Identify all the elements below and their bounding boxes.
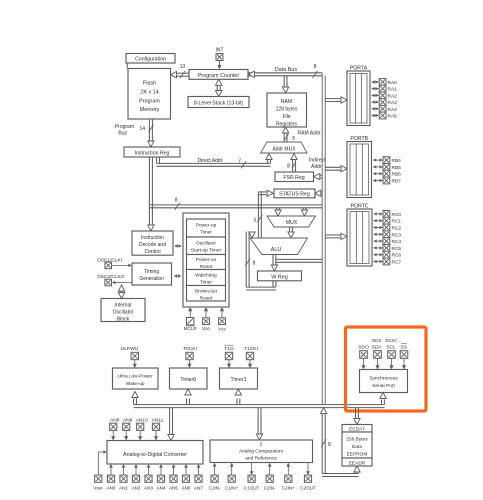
svg-text:Addr MUX: Addr MUX (272, 147, 296, 153)
bus Instruction Reg to Instruction Decode (148, 157, 154, 231)
block Internal Oscillator Block (101, 299, 145, 323)
svg-text:RA4: RA4 (388, 107, 398, 113)
svg-text:Timing: Timing (144, 269, 159, 275)
svg-text:Serial Port: Serial Port (372, 383, 395, 389)
svg-text:C2OUT: C2OUT (300, 486, 316, 491)
block Timer0 (170, 368, 208, 389)
block Oscillator Start-up Timer (187, 237, 226, 255)
svg-text:RC6: RC6 (392, 253, 402, 259)
bus Timing Generation to Internal Oscillator (118, 285, 124, 299)
svg-text:Generation: Generation (139, 276, 164, 282)
svg-text:256 Bytes: 256 Bytes (346, 437, 368, 443)
svg-text:8: 8 (314, 64, 317, 70)
svg-text:File: File (282, 114, 290, 120)
label SDO SDA SCL SS (358, 344, 408, 351)
svg-text:T1G: T1G (224, 346, 234, 352)
svg-text:8: 8 (328, 442, 331, 448)
svg-text:8: 8 (175, 197, 178, 203)
svg-text:3: 3 (253, 218, 256, 224)
wire Timing Generation to reset block (174, 274, 182, 278)
pin AN1 (119, 464, 128, 491)
pin SCL (388, 351, 396, 370)
svg-text:Power-on: Power-on (196, 257, 217, 263)
svg-text:8: 8 (287, 164, 290, 170)
svg-text:Indirect: Indirect (309, 158, 326, 164)
svg-text:C1OUT: C1OUT (244, 486, 260, 491)
svg-text:Analog-to-Digital Converter: Analog-to-Digital Converter (123, 452, 187, 458)
pin RC0 (374, 211, 402, 218)
pin SDA (374, 351, 382, 370)
block Instruction Reg (124, 147, 180, 157)
pin ULPWU (121, 346, 139, 360)
pin RC1 (374, 217, 402, 224)
pin AN5 (169, 464, 178, 491)
svg-text:and Reference: and Reference (245, 456, 277, 462)
pin C2IN- (264, 463, 276, 491)
pin C1IN- (209, 463, 221, 491)
svg-text:Instruction Reg: Instruction Reg (135, 150, 170, 156)
pin RA0 (372, 79, 398, 86)
svg-text:Bus: Bus (118, 130, 127, 136)
pin AN9 (123, 417, 133, 440)
pin AN10 (136, 417, 148, 440)
svg-text:MCLR: MCLR (184, 326, 198, 331)
svg-text:AN0: AN0 (107, 486, 116, 491)
svg-text:Addr: Addr (311, 164, 322, 170)
pin RC4 (374, 238, 402, 245)
svg-text:SCL: SCL (386, 344, 396, 350)
svg-text:SS: SS (401, 344, 408, 350)
block FSR Reg (275, 172, 314, 182)
bus Program Bus 14 (115, 119, 154, 147)
block Watchdog Timer (187, 270, 226, 286)
svg-text:ULPWU: ULPWU (121, 346, 139, 352)
svg-text:RAM: RAM (281, 99, 292, 105)
block Analog Comparators and Reference (210, 440, 313, 463)
svg-text:14: 14 (139, 126, 145, 132)
svg-text:Memory: Memory (140, 107, 160, 113)
pin OSC2/CLKO (97, 274, 125, 286)
wire Data Bus to RAM (282, 76, 288, 93)
svg-text:Program: Program (115, 124, 134, 130)
svg-text:RB5: RB5 (392, 165, 402, 171)
pin VSS (218, 307, 226, 332)
pin T1G (224, 345, 234, 359)
svg-text:Analog Comparators: Analog Comparators (239, 449, 284, 455)
block Analog-to-Digital Converter (107, 441, 203, 465)
pin RB4 (373, 157, 401, 164)
mux MUX (267, 216, 316, 227)
svg-text:ALU: ALU (271, 247, 282, 253)
wire ULPWU pin to block (133, 360, 137, 368)
svg-text:Timer: Timer (200, 280, 212, 286)
svg-text:8-Level Stack (13-bit): 8-Level Stack (13-bit) (194, 101, 244, 107)
svg-text:2K x 14: 2K x 14 (140, 90, 158, 96)
bus to PORTA (325, 97, 347, 103)
pin AN0 (107, 464, 116, 491)
wire Configuration to Flash (126, 63, 128, 69)
block Instruction Decode and Control (132, 231, 173, 255)
label Indirect Addr (309, 158, 326, 171)
alu ALU (250, 238, 308, 255)
block EEADR (342, 458, 372, 466)
wire OSC2 from Timing Generation (112, 281, 132, 285)
svg-text:AN4: AN4 (157, 486, 166, 491)
svg-text:Ultra Low-Power: Ultra Low-Power (118, 373, 153, 378)
bus Program Counter to Stack double arrow (216, 79, 222, 96)
wire W Reg feedback to ALU 8 (245, 232, 276, 291)
svg-text:RA1: RA1 (388, 87, 398, 93)
pin AN7 (194, 464, 203, 491)
svg-text:C2IN+: C2IN+ (282, 486, 295, 491)
svg-text:MUX: MUX (286, 220, 298, 226)
pin VDD (202, 307, 211, 331)
block STATUS Reg (274, 189, 315, 198)
svg-text:Wake-up: Wake-up (126, 381, 145, 386)
port PORTA (347, 66, 370, 126)
svg-text:RC7: RC7 (392, 260, 402, 266)
svg-text:AN2: AN2 (132, 486, 141, 491)
pin T0CKI (183, 346, 197, 360)
pin AN2 (132, 464, 141, 491)
svg-text:EEPROM: EEPROM (347, 452, 368, 458)
pin RB5 (373, 164, 401, 171)
bus EEPROM loop 8 (321, 408, 361, 477)
pin C2OUT (300, 463, 316, 491)
bus 13 Program Counter to Flash (171, 64, 190, 78)
svg-text:RA3: RA3 (388, 100, 398, 106)
svg-text:9: 9 (292, 136, 295, 142)
bus Data Bus (248, 64, 322, 78)
svg-text:AN11: AN11 (152, 417, 164, 423)
pin SS (400, 351, 408, 370)
block Power-on Reset (187, 255, 226, 271)
svg-text:VDD: VDD (202, 326, 211, 331)
svg-text:AN3: AN3 (144, 486, 153, 491)
svg-text:SDO: SDO (358, 344, 369, 350)
svg-text:Brown-out: Brown-out (195, 289, 218, 295)
svg-text:Block: Block (117, 317, 130, 323)
bus RAM Addr 9 (282, 127, 320, 142)
bus main right vertical (322, 73, 325, 405)
wire T0CKI to Timer0 (187, 360, 191, 368)
wire FSR to Addr MUX 8 (287, 154, 297, 173)
bus peripheral bottom (134, 405, 385, 408)
pin RA5 (372, 112, 398, 119)
svg-text:RA5: RA5 (388, 114, 398, 120)
svg-text:PORTB: PORTB (350, 136, 368, 142)
block Synchronous Serial Port (360, 370, 408, 393)
svg-text:Timer0: Timer0 (180, 377, 196, 383)
svg-text:Oscillator: Oscillator (196, 241, 216, 247)
svg-text:T1CKI: T1CKI (244, 346, 258, 352)
wire bus tap to MUX right (301, 208, 307, 216)
block Timing Generation (132, 263, 172, 285)
pin RA3 (372, 99, 398, 106)
svg-text:128 bytes: 128 bytes (276, 107, 298, 113)
port PORTB (347, 136, 372, 198)
svg-text:W Reg: W Reg (271, 274, 287, 280)
svg-text:Registers: Registers (276, 122, 298, 128)
pin RB6 (373, 170, 401, 177)
bus down to ADC (168, 408, 174, 441)
svg-text:Flash: Flash (143, 81, 156, 87)
port PORTC (347, 203, 372, 266)
wire 8-line tap to MUX left (275, 208, 281, 216)
wire VREF loop to ADC (98, 450, 107, 475)
svg-text:STATUS Reg: STATUS Reg (279, 192, 310, 198)
svg-text:RB4: RB4 (392, 158, 402, 164)
wire ALU output to W Reg and bus (271, 255, 322, 272)
block RAM 128 bytes File Registers (267, 93, 307, 128)
block 256 Bytes Data EEPROM (342, 432, 372, 458)
svg-text:AN9: AN9 (123, 417, 133, 423)
svg-text:RC2: RC2 (392, 226, 402, 232)
wire Instruction Decode to reset block (174, 244, 182, 248)
wire MUX to ALU (288, 227, 294, 238)
svg-text:Internal: Internal (115, 303, 132, 309)
wire INT to Program Counter (217, 61, 221, 70)
svg-text:RA0: RA0 (388, 80, 398, 86)
pin RC6 (374, 251, 402, 258)
svg-text:Data Bus: Data Bus (275, 67, 297, 73)
block resets outer (183, 213, 229, 307)
svg-text:Watchdog: Watchdog (195, 273, 217, 279)
svg-text:VREF: VREF (93, 486, 103, 491)
pin RC5 (374, 245, 402, 252)
svg-text:RC4: RC4 (392, 239, 402, 245)
pin RB7 (373, 177, 401, 184)
svg-text:Instruction: Instruction (141, 235, 164, 241)
svg-text:Timer1: Timer1 (231, 377, 247, 383)
pin RA1 (372, 85, 398, 92)
svg-text:T0CKI: T0CKI (183, 346, 197, 352)
highlight orange box Synchronous Serial Port (346, 327, 427, 411)
svg-text:RB7: RB7 (392, 179, 402, 185)
svg-text:Decode and: Decode and (139, 242, 166, 248)
svg-text:Configuration: Configuration (135, 57, 166, 63)
bus down to comparators (256, 408, 262, 440)
svg-text:RC1: RC1 (392, 219, 402, 225)
wire bus to FSR Reg (314, 173, 322, 179)
svg-text:PORTC: PORTC (350, 203, 368, 209)
svg-text:SDA: SDA (371, 344, 382, 350)
block Program Counter (189, 70, 248, 80)
svg-text:RC0: RC0 (392, 212, 402, 218)
svg-text:C1IN-: C1IN- (209, 486, 221, 491)
svg-text:RC3: RC3 (392, 232, 402, 238)
svg-text:AN5: AN5 (169, 486, 178, 491)
svg-text:Synchronous: Synchronous (369, 375, 398, 381)
block Brown-out Reset (187, 286, 226, 302)
svg-text:RB6: RB6 (392, 172, 402, 178)
svg-text:FSR Reg: FSR Reg (283, 175, 304, 181)
pin INT (215, 48, 223, 61)
block Flash 2K x 14 Program Memory (128, 69, 171, 120)
pin SDO (360, 351, 368, 370)
svg-text:RA2: RA2 (388, 93, 398, 99)
bus to PORTC (325, 233, 347, 239)
wire OSC1 to Timing Generation (112, 264, 132, 268)
wire bus to STATUS Reg right (315, 190, 322, 196)
pin C2IN+ (282, 463, 295, 491)
pin RA4 (372, 105, 398, 112)
block 8-Level Stack (13-bit) (188, 97, 249, 108)
wire Direct Addr to Addr MUX (266, 154, 272, 164)
svg-text:Start-up Timer: Start-up Timer (191, 248, 222, 254)
svg-text:SDI/: SDI/ (372, 338, 382, 344)
svg-text:Oscillator: Oscillator (113, 310, 134, 316)
svg-text:Program Counter: Program Counter (198, 73, 240, 79)
pin OSC1/CLKI (97, 257, 122, 268)
pin MCLR (184, 307, 198, 331)
svg-text:RAM Addr: RAM Addr (298, 131, 321, 137)
pin T1CKI (244, 346, 258, 360)
wire T1CKI to Timer1 (248, 360, 252, 368)
svg-text:INT: INT (215, 48, 223, 54)
pin RC7 (374, 258, 402, 265)
svg-text:8: 8 (253, 261, 256, 267)
svg-text:Data: Data (352, 444, 362, 450)
bus to PORTB (325, 166, 347, 172)
block Power-up Timer (187, 219, 226, 237)
svg-text:13: 13 (180, 64, 186, 70)
pin RC3 (374, 231, 402, 238)
pin AN8 (110, 417, 120, 440)
pin RA2 (372, 92, 398, 99)
pin C1IN+ (225, 463, 238, 491)
svg-text:RC5: RC5 (392, 246, 402, 252)
svg-text:C2IN-: C2IN- (264, 486, 276, 491)
mux Addr MUX (261, 142, 308, 153)
pin AN4 (157, 464, 166, 491)
svg-text:Direct Addr: Direct Addr (198, 158, 223, 164)
svg-text:SCK/: SCK/ (385, 338, 397, 344)
svg-text:VSS: VSS (218, 327, 226, 332)
pin RC2 (374, 224, 402, 231)
svg-text:AN6: AN6 (182, 486, 191, 491)
svg-text:Control: Control (144, 249, 160, 255)
block Configuration (126, 54, 175, 64)
svg-text:AN10: AN10 (136, 417, 148, 423)
svg-text:Power-up: Power-up (196, 223, 217, 229)
bus Direct Addr 7 (157, 157, 271, 168)
svg-text:2: 2 (260, 441, 263, 447)
svg-text:Reset: Reset (200, 296, 213, 302)
wire bus up to Timer0 (185, 389, 191, 405)
block Timer1 (220, 368, 258, 389)
pin AN11 (152, 417, 164, 440)
pin C1OUT (244, 463, 260, 491)
svg-text:C1IN+: C1IN+ (225, 486, 238, 491)
wire bus up to Timer1 (235, 389, 241, 405)
svg-text:Program: Program (139, 99, 160, 105)
svg-text:AN1: AN1 (119, 486, 128, 491)
svg-text:EEADR: EEADR (349, 460, 366, 466)
block Ultra Low-Power Wake-up (113, 368, 159, 389)
svg-text:7: 7 (238, 159, 241, 165)
svg-text:Timer: Timer (200, 230, 212, 236)
svg-text:AN8: AN8 (110, 417, 120, 423)
wire bus down to EEDAT (354, 408, 360, 425)
wire bus up to ULPWU (132, 392, 138, 405)
wire bus up to SSP (380, 393, 386, 405)
block EEDAT (342, 425, 372, 433)
bus literal 8 to MUX (149, 197, 322, 210)
block W Reg (258, 271, 302, 281)
pin AN3 (144, 464, 153, 491)
pin VREF (93, 475, 103, 490)
pin AN6 (182, 464, 191, 491)
wire ALU flags to STATUS Reg 3 (253, 190, 273, 238)
wire T1G to Timer1 (227, 360, 231, 368)
label SDI/ SCK/ (372, 338, 398, 344)
svg-text:AN7: AN7 (194, 486, 203, 491)
